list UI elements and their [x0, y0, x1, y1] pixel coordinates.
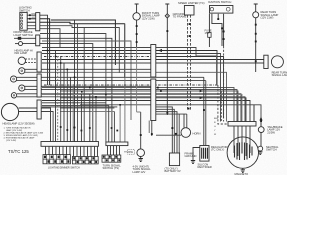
headlamp	[1, 103, 18, 120]
wire lamp5 upper to magneto	[17, 94, 241, 122]
wire dashed drop right	[218, 85, 228, 124]
magneto coils	[235, 142, 253, 160]
wire comb A10	[95, 97, 97, 142]
right front turn signal lamp	[253, 12, 259, 18]
wire front TS continuation	[137, 47, 141, 112]
wire horn feed upper	[183, 114, 185, 128]
wire switch lead 2 nested loop top	[27, 19, 115, 85]
wire below strip M2	[151, 121, 153, 137]
connector strip S2 brake switch	[36, 35, 40, 46]
wire comb A6	[72, 86, 74, 141]
wire right turn signal stem	[254, 4, 258, 72]
ground neutral lamp	[258, 152, 262, 155]
wire magneto leads inside	[234, 105, 254, 157]
wire horn feed second	[186, 114, 188, 128]
lighting switch box	[20, 12, 27, 30]
wire bus y108 mid	[60, 107, 114, 109]
wire switch lead 1 to corner	[27, 15, 47, 85]
wire battery feed 1	[156, 107, 172, 153]
wire ignition switch lead C	[223, 14, 225, 46]
wire bus y94.5	[42, 95, 242, 122]
wire comb A1	[55, 51, 57, 142]
wire bus y56.5 right	[156, 57, 224, 119]
wire L harness left 2	[77, 24, 79, 142]
indicator lamp 3	[11, 76, 17, 82]
wire ignition switch lead A	[212, 14, 222, 46]
front brake light switch body	[18, 37, 21, 40]
wire bus y50.5	[42, 51, 217, 86]
wire battery feed 2	[156, 109, 174, 153]
front turn signal lamp	[133, 13, 140, 20]
wire bus y56.5 dash-dot left	[44, 56, 151, 58]
label dashed callout near bar2	[124, 150, 135, 155]
speed limiter box	[184, 6, 194, 16]
wire comb B6	[124, 24, 126, 142]
wire bus y97.8	[60, 98, 246, 122]
rectifier	[200, 146, 209, 162]
wire bus y111.5 mid	[60, 111, 114, 113]
wire nested loop 3	[27, 26, 119, 73]
clutch switch body	[19, 42, 23, 46]
connector strip M1 main harness upper	[151, 45, 156, 78]
wire battery feed 3	[156, 112, 177, 153]
wire dashed ignition drop	[223, 46, 225, 122]
ground magneto	[241, 170, 245, 173]
terminal block C	[102, 155, 121, 162]
wire dashed nested right	[220, 91, 222, 122]
wire headlamp upper	[19, 108, 51, 142]
wire comb A8	[83, 28, 85, 142]
fuse body	[208, 33, 211, 38]
wire right drop	[216, 56, 218, 85]
wire lamp3 upper	[17, 76, 204, 78]
ground rectifier side	[191, 161, 195, 164]
wire rectifier feed 1	[203, 77, 205, 145]
wire dashed lamp1 leads	[25, 59, 39, 63]
indicator lamp 4	[19, 85, 25, 91]
terminal block A	[43, 155, 70, 164]
connector strip S3 lamps upper	[37, 52, 41, 72]
wire comb A7	[80, 94, 82, 142]
wire magneto ground stem	[242, 168, 244, 170]
wire battery feed 4	[156, 114, 187, 153]
wire bus y47.5	[42, 48, 217, 57]
wire speed limiter lead 1	[187, 15, 189, 110]
wire L harness left 1	[74, 20, 76, 141]
wire rectifier ground link	[193, 148, 200, 161]
wire bus y59.5 to rear turn signal	[42, 59, 264, 61]
wire clutch switch upper	[42, 41, 131, 120]
junction squares	[29, 14, 262, 136]
wire bus y63 to rear turn signal	[42, 62, 264, 64]
wire headlamp lower	[19, 112, 54, 142]
flasher relay	[137, 149, 145, 157]
connector strip S1 ignition switch	[36, 13, 40, 31]
wire comb A2	[60, 57, 62, 142]
wire comb A5	[69, 77, 71, 141]
wire neutral device lead	[259, 133, 262, 152]
turn signal indicator lamp 1	[18, 57, 25, 64]
wire clutch switch lower	[23, 44, 93, 142]
wire bus y91	[60, 91, 238, 122]
connector bar2	[106, 142, 128, 146]
wire lamp4 lower to magneto	[25, 90, 237, 122]
connector strip S4 lamps lower	[37, 74, 41, 97]
wire switch lead 5	[27, 29, 60, 48]
indicator lamp 5	[11, 93, 16, 98]
wire dashed chassis line	[44, 84, 218, 86]
horn	[181, 128, 191, 138]
magneto connector bar	[228, 122, 256, 127]
arrow on bus wire	[158, 49, 162, 52]
wire bus y104.8 to magneto and tail	[80, 105, 261, 127]
wire comb below bar1	[46, 147, 98, 157]
wire ignition switch lead B	[217, 14, 219, 20]
wire front turn signal stem	[135, 4, 139, 47]
terminal block B	[72, 157, 98, 164]
wire lamp2 upper	[25, 68, 151, 70]
wire staircase y33.5	[40, 34, 106, 143]
wire comb B1 feed	[42, 102, 106, 104]
wire comb B4	[113, 112, 115, 143]
wire dashed mid drop	[57, 56, 59, 142]
connector strip rear turn signal	[264, 55, 268, 68]
wire lamp3 lower	[17, 80, 206, 82]
wire lamp2 lower	[25, 72, 227, 121]
wire lamp4 upper	[25, 85, 156, 87]
wire bus y87.6 to magneto	[42, 88, 234, 122]
battery	[169, 153, 179, 166]
wire front brake switch	[14, 38, 112, 142]
rear turn signal lamp	[271, 56, 283, 68]
wire below strip M2 second	[148, 121, 150, 134]
tail brake lamp	[258, 127, 264, 133]
wire ignition fuse lead	[208, 14, 210, 47]
magneto	[227, 137, 258, 168]
wire comb A9	[89, 94, 91, 142]
wire comb A4	[66, 69, 68, 141]
connector strip M2 main harness lower	[151, 79, 156, 121]
wire lamp5 lower to magneto	[17, 97, 245, 122]
wire ground-to-frame stem	[165, 4, 169, 115]
lighting switch terminals	[21, 14, 23, 29]
wire comb B2	[42, 105, 109, 142]
ground to frame diamond	[165, 14, 169, 18]
connector bar1	[41, 142, 98, 147]
label legend	[4, 126, 44, 142]
wire horn feed left	[156, 134, 181, 136]
arrow bus marks	[200, 90, 203, 100]
wire bus y100.5 to magneto	[42, 101, 250, 122]
wire speed limiter lead 2	[190, 15, 192, 110]
ground flasher	[139, 157, 143, 162]
wire rectifier feed 2	[205, 81, 207, 146]
wire comb below bar2	[108, 146, 120, 155]
arrow tail lamp feed	[259, 117, 262, 121]
wire nested loop 2	[27, 22, 124, 78]
wire comb B5	[119, 105, 121, 142]
wire flasher drop	[140, 112, 142, 149]
wire bus y53.5	[42, 54, 221, 122]
ignition switch box	[210, 6, 233, 14]
wire tail drop square	[260, 121, 262, 127]
scan noise overlay	[0, 0, 1, 1]
wire bus y106.9	[42, 106, 117, 108]
wire clutch stub	[15, 43, 19, 45]
wire comb A3	[63, 63, 65, 142]
indicator lamp 2	[19, 68, 25, 74]
neutral device lamp	[258, 146, 263, 151]
connector strip S5 headlamp	[37, 100, 41, 119]
